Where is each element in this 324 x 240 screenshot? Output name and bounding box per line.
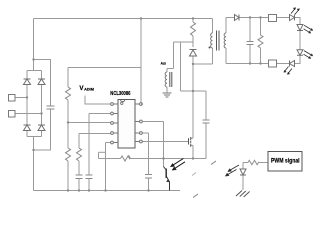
svg-text:NCL30086: NCL30086 [110, 91, 130, 97]
svg-text:Aux: Aux [161, 61, 167, 66]
svg-text:PWM signal: PWM signal [271, 157, 300, 164]
svg-text:ADIM: ADIM [84, 88, 94, 92]
